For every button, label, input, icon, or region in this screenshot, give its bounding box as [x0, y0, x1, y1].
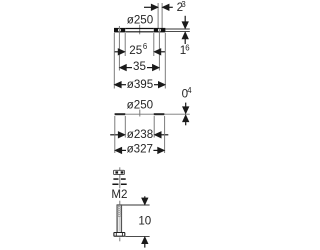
extension line right of dim 2.3: [161, 3, 163, 28]
thread symbol centerline: [119, 167, 121, 188]
dim ø395 right line segment: [154, 84, 160, 86]
dim ø238 left arrowhead: [118, 132, 125, 138]
screw centerline below: [119, 237, 121, 241]
extension line left of dim 2.3: [157, 3, 159, 28]
thread symbol dash row1 left: [113, 178, 118, 180]
dim 1.6 bottom surface extension line: [165, 31, 189, 33]
dim 2.3 left arrowhead: [151, 4, 158, 10]
dim 10 up arrowhead: [142, 237, 148, 244]
screw head inner line right: [121, 233, 123, 236]
dim 10 top extension line: [122, 204, 150, 206]
extension line right of dim ø395: [164, 33, 166, 89]
dim 25.6 right stem: [159, 51, 165, 53]
right hole centerline: [158, 29, 160, 71]
screw head: [114, 233, 125, 237]
dim ø327 right arrowhead: [158, 147, 165, 153]
dim 1.6 up arrowhead: [182, 32, 188, 39]
svg-text:ø250: ø250: [127, 98, 153, 111]
leader centerline from ø250 through plate: [139, 25, 141, 35]
thread symbol dash row2 right: [121, 184, 127, 186]
dim 10 lower stem: [144, 242, 146, 248]
dim 0.4 down arrowhead: [183, 107, 189, 114]
dim ø238 left stem: [110, 134, 120, 136]
dim ø395 right arrowhead: [158, 82, 165, 88]
dim 0.4 up arrowhead: [183, 115, 189, 122]
left screw hole: [118, 29, 121, 32]
gasket right extension thin line: [164, 113, 190, 115]
svg-text:6: 6: [143, 42, 147, 51]
svg-text:ø250: ø250: [127, 14, 153, 27]
dim ø327 left arrowhead: [115, 147, 122, 153]
plate bar hollow middle top line: [125, 28, 154, 30]
svg-text:10: 10: [138, 215, 151, 228]
dim 35 left line segment: [125, 67, 132, 69]
gasket left solid segment: [115, 113, 126, 115]
extension line right of dim 25.6: [153, 33, 155, 56]
dim 2.3 left stem: [144, 6, 158, 8]
screw thread hatch: [117, 205, 121, 217]
svg-text:ø395: ø395: [127, 78, 153, 91]
dim 10 upper stem: [144, 196, 146, 200]
svg-text:3: 3: [181, 0, 185, 9]
thread symbol dash row1 right: [121, 178, 126, 180]
right screw hole: [158, 29, 161, 32]
svg-text:ø238: ø238: [127, 128, 153, 141]
dim ø238 right arrowhead: [154, 132, 161, 138]
screw centerline above: [119, 201, 121, 205]
dim 1.6 top surface extension line: [165, 28, 189, 30]
dim ø327 right line segment: [153, 149, 159, 151]
gasket middle thin line: [125, 113, 154, 115]
leader centerline from second ø250: [139, 110, 141, 117]
dim 10 bottom extension line: [125, 235, 149, 237]
extension line right of dim ø327: [164, 116, 166, 153]
screw shank centerline: [118, 217, 120, 232]
screw head inner line left: [115, 233, 117, 236]
dim 1.6 down arrowhead: [182, 22, 188, 29]
dim 2.3 right stem: [168, 6, 173, 8]
dim ø327 left line segment: [120, 149, 126, 151]
dim 25.6 left stem: [115, 51, 120, 53]
dim ø238 right stem: [160, 134, 169, 136]
dim 2.3 right arrowhead: [162, 4, 169, 10]
svg-text:6: 6: [185, 43, 189, 52]
screw shank inner thread lines: [117, 216, 119, 233]
extension line right of dim ø238: [153, 116, 155, 138]
dim 25.6 left arrowhead: [118, 49, 125, 55]
svg-text:25: 25: [129, 44, 142, 57]
extension line left of dim ø327: [114, 116, 116, 153]
plate bar left solid section: [114, 28, 125, 33]
dim 1.6 upper stem: [184, 16, 186, 24]
screw shank: [117, 205, 122, 233]
extension line left of dim ø395: [113, 33, 115, 89]
dim 0.4 lower stem: [185, 120, 187, 125]
dim 35 right arrowhead: [152, 64, 159, 70]
svg-text:4: 4: [187, 86, 192, 95]
extension line left of dim ø238: [124, 116, 126, 138]
extension line left of dim 25.6: [124, 33, 126, 56]
left hole centerline: [118, 26, 120, 71]
thread symbol inner bar right: [121, 171, 124, 173]
thread symbol body rectangle: [114, 170, 125, 174]
dim ø395 left arrowhead: [114, 82, 121, 88]
svg-text:35: 35: [133, 60, 146, 73]
dim ø395 left line segment: [120, 84, 126, 86]
thread symbol inner bar left: [115, 171, 118, 173]
gasket right solid segment: [154, 113, 165, 115]
dim 35 left arrowhead: [119, 64, 126, 70]
plate bar hollow middle bottom line: [125, 31, 154, 33]
dim 1.6 lower stem: [184, 37, 186, 44]
plate bar right solid section: [154, 28, 166, 33]
dim 10 down arrowhead: [142, 198, 148, 205]
thread symbol dash row2 left: [112, 184, 118, 186]
svg-text:ø327: ø327: [127, 142, 153, 155]
svg-text:M2: M2: [111, 188, 127, 201]
dim 35 right line segment: [147, 67, 154, 69]
dim 25.6 right arrowhead: [154, 49, 161, 55]
dim 0.4 upper stem: [185, 103, 187, 109]
